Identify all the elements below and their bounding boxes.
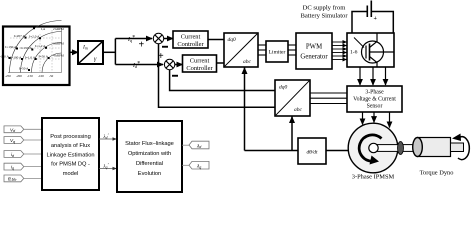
svg-text:dq0: dq0 (228, 37, 237, 43)
wire Im/gamma to split node (103, 39, 116, 65)
limiter box (266, 41, 288, 62)
output tag lambda d (189, 141, 209, 149)
wire CC2 to dq0/abc transform (217, 62, 225, 64)
svg-text:abc: abc (243, 59, 252, 65)
svg-text:I=50 A: I=50 A (19, 66, 29, 70)
svg-text:-50: -50 (49, 74, 54, 78)
svg-text:I=100 A: I=100 A (10, 55, 22, 59)
output wire lambda d (182, 144, 189, 146)
iq feedback wire to sum1 (159, 44, 276, 108)
svg-text:Linkage Estimation: Linkage Estimation (46, 152, 94, 158)
svg-text:I=207 A: I=207 A (14, 34, 26, 38)
lambda d wire to optimizer (99, 134, 117, 141)
lambda q wire to optimizer (99, 163, 117, 170)
input tag id (4, 151, 42, 158)
svg-text:-200: -200 (16, 74, 22, 78)
svg-text:Torque Dyno: Torque Dyno (420, 170, 454, 177)
abc/dq0 measurement transform box (275, 80, 310, 116)
rotation arrow inside motor (359, 135, 381, 165)
svg-text:3 kRPM: 3 kRPM (53, 42, 64, 46)
svg-text:Im: Im (82, 45, 88, 51)
svg-text:3-Phase IPMSM: 3-Phase IPMSM (352, 174, 395, 181)
svg-text:DC supply from: DC supply from (303, 5, 347, 12)
battery symbol (367, 1, 377, 23)
DC bus wires battery to inverter (352, 12, 393, 34)
svg-text:Optimization with: Optimization with (128, 151, 171, 157)
svg-text:model: model (63, 171, 79, 177)
svg-text:λq: λq (196, 164, 201, 170)
svg-text:I=2.0 A: I=2.0 A (29, 35, 40, 39)
flux map tiny point labels (0, 25, 49, 71)
svg-text:Battery Simulator: Battery Simulator (300, 13, 348, 20)
dq0/abc transform (inverse) (224, 33, 258, 67)
input tag theta omega (4, 175, 42, 182)
PWM generator box (296, 33, 332, 69)
3 measurement wires sensor to abc/dq0 (310, 93, 347, 104)
wire flux map to Im/gamma block (69, 51, 78, 53)
output wire lambda q (182, 164, 189, 166)
svg-text:Stator Flux–linkage: Stator Flux–linkage (125, 141, 174, 147)
svg-text:+: + (139, 40, 145, 51)
post processing box (42, 118, 99, 190)
id feedback wire to sum2 (170, 70, 275, 91)
dyno rotation arrow (452, 134, 469, 160)
3 phase wires inverter to sensor (360, 67, 386, 85)
svg-text:Post processing: Post processing (50, 134, 90, 140)
current controller d (box) (183, 55, 217, 72)
svg-text:+: + (374, 16, 378, 22)
dyno output stub (451, 143, 464, 152)
motor body (3-phase IPMSM) (348, 123, 398, 173)
svg-text:I=150 A: I=150 A (5, 45, 17, 49)
input tag iq (4, 163, 42, 170)
output tag lambda q (189, 161, 209, 169)
torque dyno cylinder (413, 138, 451, 157)
flux map dashed grid (10, 30, 62, 73)
flux map box (lookup table plot) (3, 27, 70, 86)
svg-text:Generator: Generator (300, 54, 328, 61)
svg-text:Controller: Controller (177, 41, 204, 48)
svg-text:Sensor: Sensor (367, 104, 383, 110)
svg-text:Vq: Vq (10, 138, 15, 144)
flux map axes (8, 28, 62, 73)
svg-text:3-Phase: 3-Phase (365, 90, 384, 96)
summing junction q-axis (139, 33, 169, 50)
motor shaft (375, 145, 416, 152)
IGBT symbol inside inverter (354, 33, 394, 67)
wire sum2 to current controller 2 (175, 64, 183, 66)
label Torque Dyno (420, 170, 454, 177)
svg-text:4 kRPM: 4 kRPM (53, 54, 64, 58)
svg-text:dq0: dq0 (279, 85, 288, 91)
svg-text:I=1.0 A: I=1.0 A (25, 55, 36, 59)
svg-text:Evolution: Evolution (138, 171, 161, 177)
theta wire horizontal run (245, 150, 299, 152)
shaft hub (369, 143, 378, 152)
svg-text:abc: abc (294, 107, 303, 113)
3 phase wires sensor to motor (363, 112, 390, 128)
svg-text:I=1.2 A: I=1.2 A (35, 44, 46, 48)
svg-text:I=100 A: I=100 A (0, 54, 10, 58)
flux map axis tick labels (5, 27, 64, 78)
svg-text:-100: -100 (38, 74, 44, 78)
svg-text:-150: -150 (27, 74, 33, 78)
svg-text:Voltage & Current: Voltage & Current (353, 97, 396, 103)
3 wires limiter to PWM generator (288, 45, 296, 55)
svg-text:analysis of Flux: analysis of Flux (51, 143, 90, 149)
encoder wire motor to d-theta/dt (326, 150, 349, 152)
svg-text:Current: Current (190, 58, 210, 65)
svg-text:1-6: 1-6 (350, 50, 358, 56)
d-theta/dt box (298, 138, 326, 164)
6 gate signal wires PWM to inverter (332, 42, 347, 60)
3-phase voltage & current sensor box (347, 86, 402, 112)
flux map data dots (9, 27, 50, 71)
wire sum1 to current controller 1 (164, 38, 173, 40)
theta wire to dq0/abc transform (up arrow) (242, 67, 248, 151)
svg-text:I=250 A: I=250 A (22, 25, 34, 29)
shaft coupling disc (398, 142, 404, 155)
wire Id* reference (115, 61, 163, 69)
label 3-Phase IPMSM (352, 174, 395, 181)
svg-text:Limiter: Limiter (269, 50, 286, 56)
3 wires dq0/abc to limiter (258, 45, 266, 55)
block Im/gamma (78, 41, 103, 64)
wire CC1 to dq0/abc transform (208, 39, 224, 41)
svg-text:iq: iq (11, 165, 14, 171)
summing junction d-axis (158, 51, 178, 77)
inverter box (347, 33, 394, 67)
svg-text:2 kRPM: 2 kRPM (53, 27, 64, 31)
stator flux-linkage optimization box (117, 121, 182, 192)
svg-text:-250: -250 (5, 74, 11, 78)
svg-text:I=150 A: I=150 A (21, 46, 33, 50)
svg-text:for PMSM DQ -: for PMSM DQ - (51, 162, 90, 168)
label DC supply from Battery Simulator (300, 5, 348, 20)
wire Iq* reference (115, 35, 152, 43)
svg-text:Current: Current (181, 34, 201, 41)
input tag Vq (4, 137, 42, 144)
svg-text:PWM: PWM (306, 44, 322, 51)
theta branch wire to abc/dq0 transform (289, 116, 295, 151)
input tag Vd (4, 126, 42, 133)
svg-text:dθ/dt: dθ/dt (306, 150, 318, 156)
flux map arcs (10, 21, 62, 73)
svg-text:Controller: Controller (186, 65, 213, 72)
svg-text:Differential: Differential (136, 161, 163, 167)
current controller q (box) (173, 31, 208, 48)
svg-text:I=50 A: I=50 A (39, 54, 49, 58)
svg-text:θ,ωr: θ,ωr (8, 176, 17, 182)
